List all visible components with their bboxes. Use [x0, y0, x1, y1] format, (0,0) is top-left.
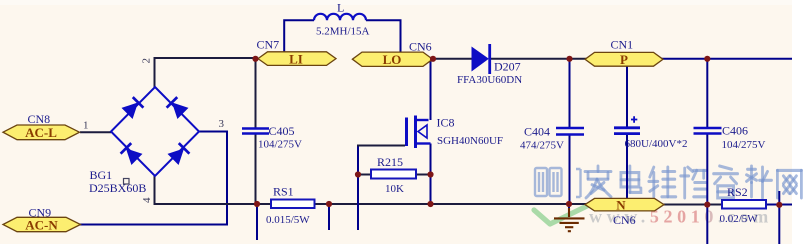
svg-text:IC8: IC8: [437, 116, 455, 130]
watermark www.52010.com: [589, 207, 773, 227]
wire AC-N to pin3 line: [80, 224, 228, 226]
svg-text:CN6: CN6: [613, 213, 636, 227]
svg-text:C406: C406: [722, 123, 748, 137]
connector CN7 LI: [258, 52, 336, 66]
svg-text:CN6: CN6: [409, 39, 432, 53]
svg-text:SGH40N60UF: SGH40N60UF: [437, 135, 503, 147]
svg-text:N: N: [616, 198, 626, 213]
wire C406 vertical: [706, 59, 708, 244]
diode D207: [472, 44, 490, 74]
wire C404 vertical: [569, 59, 571, 204]
node C406 top: [704, 56, 710, 62]
wire C404 node to P: [570, 58, 587, 60]
bridge diode bottom-left: [121, 143, 142, 164]
node R215 right / emitter: [427, 171, 433, 177]
svg-text:LO: LO: [383, 52, 402, 67]
IGBT IC8: [407, 116, 431, 149]
bridge diode top-right: [167, 97, 188, 118]
svg-text:AC-N: AC-N: [25, 217, 58, 232]
electrolytic cap plus sign: [631, 116, 637, 122]
connector CN9 AC-N: [3, 217, 81, 231]
svg-text:474/275V: 474/275V: [520, 140, 564, 152]
svg-text:RS1: RS1: [273, 185, 294, 199]
wire bridge pin4 down: [154, 175, 156, 205]
ground symbol: [554, 208, 585, 231]
svg-text:R215: R215: [377, 155, 403, 169]
wire top bus P to right end: [662, 58, 792, 60]
wire RS2 right to edge: [765, 204, 792, 206]
node LI / C405 top: [252, 56, 258, 62]
electrolytic capacitor 680U/400V*2: [614, 126, 640, 129]
wire ground stub: [568, 204, 570, 217]
resistor R215: [371, 170, 416, 179]
svg-text:D25BX60B: D25BX60B: [89, 181, 146, 195]
wire R215 leads: [358, 174, 431, 176]
wire top bus LO to D207: [433, 58, 474, 60]
svg-text:5.2MH/15A: 5.2MH/15A: [316, 26, 370, 38]
svg-text:FFA30U60DN: FFA30U60DN: [457, 74, 522, 86]
capacitor C404: [556, 128, 584, 135]
capacitor C405: [242, 129, 269, 134]
node RS1 left: [254, 201, 260, 207]
wire IC8 emitter down to bus: [430, 144, 432, 205]
wire C405 vertical: [255, 59, 257, 204]
wire P down through 680U cap to N: [626, 66, 628, 199]
svg-text:L: L: [337, 0, 344, 14]
svg-text:CN1: CN1: [611, 37, 634, 51]
connector CN6 N: [585, 198, 664, 211]
watermark chinese text: [585, 166, 801, 198]
svg-text:P: P: [620, 52, 628, 67]
connector CN1 P: [585, 52, 663, 66]
connector CN8 AC-L: [3, 125, 80, 140]
wire bottom bus pin4 to connector N: [154, 203, 587, 205]
svg-text:680U/400V*2: 680U/400V*2: [625, 138, 688, 150]
wire bridge pin2 up and right to node LI: [154, 58, 257, 88]
node C406 bottom / RS2 left: [704, 202, 710, 208]
wire top bus D207 to C404: [489, 58, 570, 60]
svg-text:BG1: BG1: [90, 168, 113, 182]
svg-text:4: 4: [141, 197, 153, 203]
wire gate lead: [357, 145, 405, 147]
node RS2 right: [776, 202, 782, 208]
svg-text:0.02/5W: 0.02/5W: [720, 213, 759, 225]
wire below RS2 right: [778, 191, 780, 244]
svg-text:3: 3: [219, 118, 225, 130]
resistor RS2: [722, 200, 766, 209]
node IC8 emitter / bus: [427, 201, 433, 207]
svg-text:LI: LI: [289, 51, 303, 66]
node ground / bus: [566, 201, 572, 207]
wire stub below RS1 left: [256, 204, 258, 240]
wire IC8 collector up to bus: [430, 59, 432, 120]
svg-text:104/275V: 104/275V: [722, 139, 766, 151]
svg-text:2: 2: [141, 58, 153, 64]
bridge rectifier BG1 diamond: [111, 87, 199, 176]
watermark green check: [534, 206, 588, 225]
resistor RS1: [271, 200, 315, 209]
inductor L: [314, 14, 366, 20]
svg-text:D207: D207: [494, 59, 521, 73]
svg-text:104/275V: 104/275V: [258, 139, 302, 151]
node RS1 right: [326, 201, 332, 207]
svg-text:0.015/5W: 0.015/5W: [266, 214, 310, 226]
bridge diode bottom-right: [168, 143, 189, 164]
wire bottom bus N to RS2: [663, 204, 723, 206]
small square marker: [124, 179, 130, 185]
svg-text:AC-L: AC-L: [25, 125, 57, 140]
node LO / IC8 collector: [430, 56, 436, 62]
node gate / R215 left: [355, 171, 361, 177]
svg-text:1: 1: [83, 120, 89, 132]
wire gate net vertical: [357, 145, 359, 231]
capacitor C406: [694, 128, 722, 134]
wire inductor leads: [284, 19, 400, 52]
node C404 top: [566, 56, 572, 62]
svg-text:10K: 10K: [385, 183, 404, 195]
svg-text:C404: C404: [524, 124, 550, 138]
wire bridge pin3 right and down: [198, 131, 227, 225]
wire AC-L to bridge pin1: [80, 131, 111, 133]
svg-text:CN7: CN7: [257, 38, 280, 52]
svg-text:CN9: CN9: [29, 206, 52, 220]
watermark book logo: [535, 168, 581, 197]
connector CN6 LO: [352, 52, 432, 66]
svg-text:C405: C405: [269, 124, 295, 138]
wire stub below RS1 right: [328, 204, 330, 230]
svg-text:CN8: CN8: [28, 112, 51, 126]
bridge diode top-left: [122, 97, 143, 118]
svg-text:RS2: RS2: [727, 185, 748, 199]
